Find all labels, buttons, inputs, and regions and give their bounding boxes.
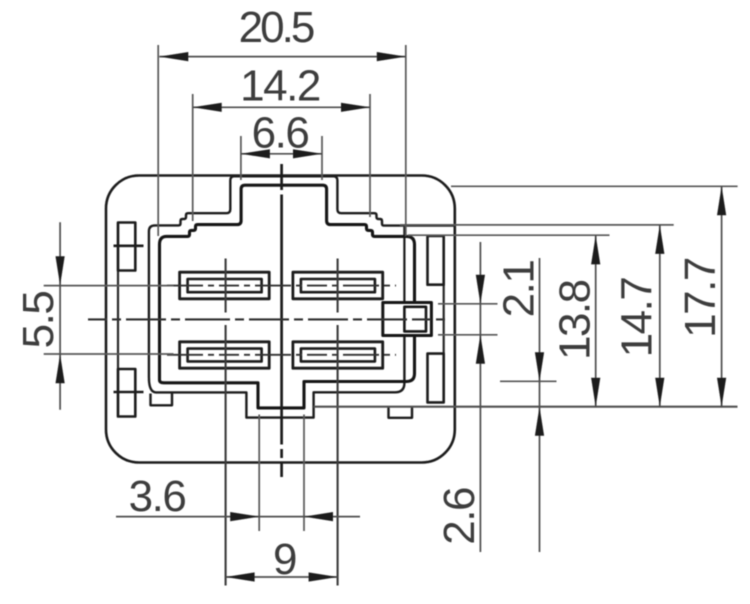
long bottom extension line y=406.7 xyxy=(314,406,738,408)
pin column center line right xyxy=(337,259,339,586)
svg-text:3.6: 3.6 xyxy=(129,472,186,521)
outer body xyxy=(106,176,455,463)
housing inner wall top xyxy=(160,185,415,380)
dim 14.7 line xyxy=(659,225,661,407)
dim 2.6 extension tick xyxy=(500,380,557,382)
terminal pin slot D inner xyxy=(301,349,375,362)
dim 3.6 line xyxy=(116,516,360,518)
dim 6.6 extension lines xyxy=(240,136,242,180)
dim 20.5 extension lines xyxy=(157,45,159,236)
terminal pin slot B (top-right) outer xyxy=(293,272,383,299)
svg-text:9: 9 xyxy=(273,535,296,584)
dim 14.7 extension line xyxy=(400,224,674,226)
dim 20.5 line xyxy=(159,56,405,58)
dim 14.2 line xyxy=(193,106,370,108)
dim 13.8 line xyxy=(595,235,597,406)
housing inner wall bottom xyxy=(160,336,415,408)
svg-text:2.6: 2.6 xyxy=(435,488,484,545)
top-right side tab xyxy=(428,236,444,285)
left flange line xyxy=(117,223,119,417)
svg-text:20.5: 20.5 xyxy=(239,3,314,52)
terminal pin slot B inner xyxy=(301,279,375,292)
dim 9 line xyxy=(226,576,338,578)
terminal pin slot C (bottom-left) outer xyxy=(180,342,270,368)
terminal pin slot A inner xyxy=(188,279,262,292)
dim 3.6 extension lines xyxy=(258,415,260,532)
horizontal center line xyxy=(88,318,447,320)
svg-text:14.2: 14.2 xyxy=(240,62,320,111)
dim 13.8 extension line xyxy=(408,234,610,236)
pin column center line left xyxy=(225,259,227,586)
terminal pin slot D (bottom-right) outer xyxy=(293,342,383,368)
latch box outer xyxy=(383,303,432,336)
terminal pin slot C inner xyxy=(188,349,262,362)
vertical center line xyxy=(280,164,283,477)
dim 5.5 extension lines xyxy=(44,285,174,287)
bottom-right foot xyxy=(389,408,413,418)
bottom-left foot xyxy=(151,394,173,406)
latch box inner xyxy=(404,307,426,332)
dim 17.7 extension line xyxy=(451,185,738,187)
svg-text:5.5: 5.5 xyxy=(14,292,63,349)
dim 6.6 line xyxy=(241,153,322,155)
svg-text:17.7: 17.7 xyxy=(676,258,725,338)
top-left side tab xyxy=(118,223,135,271)
housing outer lip bottom xyxy=(149,336,405,418)
dim 17.7 line xyxy=(721,186,723,406)
terminal pin slot A (top-left) outer xyxy=(180,272,270,299)
dim 2.1 extension ticks xyxy=(438,303,498,305)
svg-text:2.1: 2.1 xyxy=(495,261,544,318)
right flange line xyxy=(443,236,445,403)
bottom-right side tab xyxy=(428,354,444,403)
dim 2.6 line xyxy=(539,258,541,552)
pin row center marks: top row dash-dot xyxy=(167,285,396,287)
housing outer lip top xyxy=(149,176,455,377)
svg-text:14.7: 14.7 xyxy=(613,278,662,358)
bottom-left side tab xyxy=(118,369,135,417)
latch channel outer line xyxy=(403,227,405,303)
dim 14.2 extension lines xyxy=(192,94,194,221)
svg-text:6.6: 6.6 xyxy=(252,109,309,158)
svg-text:13.8: 13.8 xyxy=(551,280,600,360)
pin row center marks: bottom row dash-dot xyxy=(167,354,396,356)
dim 2.1 line xyxy=(479,242,481,552)
dim 5.5 line xyxy=(59,222,61,409)
